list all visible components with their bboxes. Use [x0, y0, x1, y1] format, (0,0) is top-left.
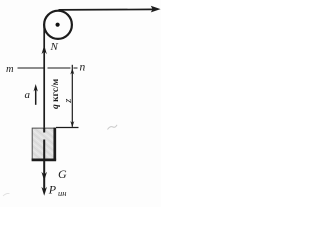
- node line m-n (dashed): [18, 67, 78, 69]
- force N arrowhead (up, on rope): [42, 45, 47, 54]
- pulley axle dot: [56, 23, 60, 27]
- arrowhead of rope pull direction (top right): [151, 6, 161, 13]
- scan noise squiggle: [108, 125, 118, 130]
- wire: vertical rope from pulley to load: [43, 24, 45, 132]
- svg-text:P: P: [48, 183, 57, 197]
- extension line at load top: [56, 127, 79, 129]
- force G arrow: [43, 140, 45, 192]
- svg-text:n: n: [80, 62, 86, 74]
- pulley: [44, 11, 72, 39]
- wire: rope horizontal segment to the right: [59, 8, 154, 11]
- svg-text:N: N: [50, 41, 59, 53]
- svg-text:m: m: [6, 64, 14, 75]
- svg-text:z: z: [63, 99, 74, 104]
- svg-text:q кгс/м: q кгс/м: [51, 78, 61, 109]
- rope stub into box: [43, 128, 45, 133]
- svg-text:G: G: [58, 167, 67, 181]
- dimension z line: [71, 65, 73, 127]
- force P_in arrow: [41, 187, 47, 196]
- acceleration a arrow: [35, 89, 37, 105]
- load box G: [32, 128, 55, 160]
- svg-text:a: a: [25, 89, 31, 101]
- svg-text:ин: ин: [58, 188, 66, 198]
